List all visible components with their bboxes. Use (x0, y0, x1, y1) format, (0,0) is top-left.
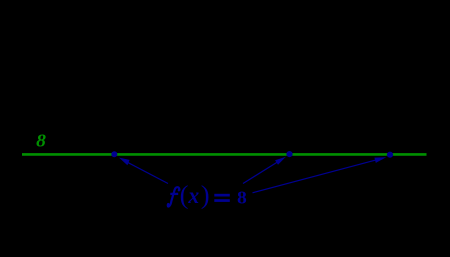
svg-text:8: 8 (237, 188, 247, 208)
svg-text:8: 8 (36, 131, 46, 151)
svg-text:(: ( (180, 180, 189, 210)
svg-text:x: x (187, 183, 199, 208)
svg-text:): ) (201, 180, 210, 210)
